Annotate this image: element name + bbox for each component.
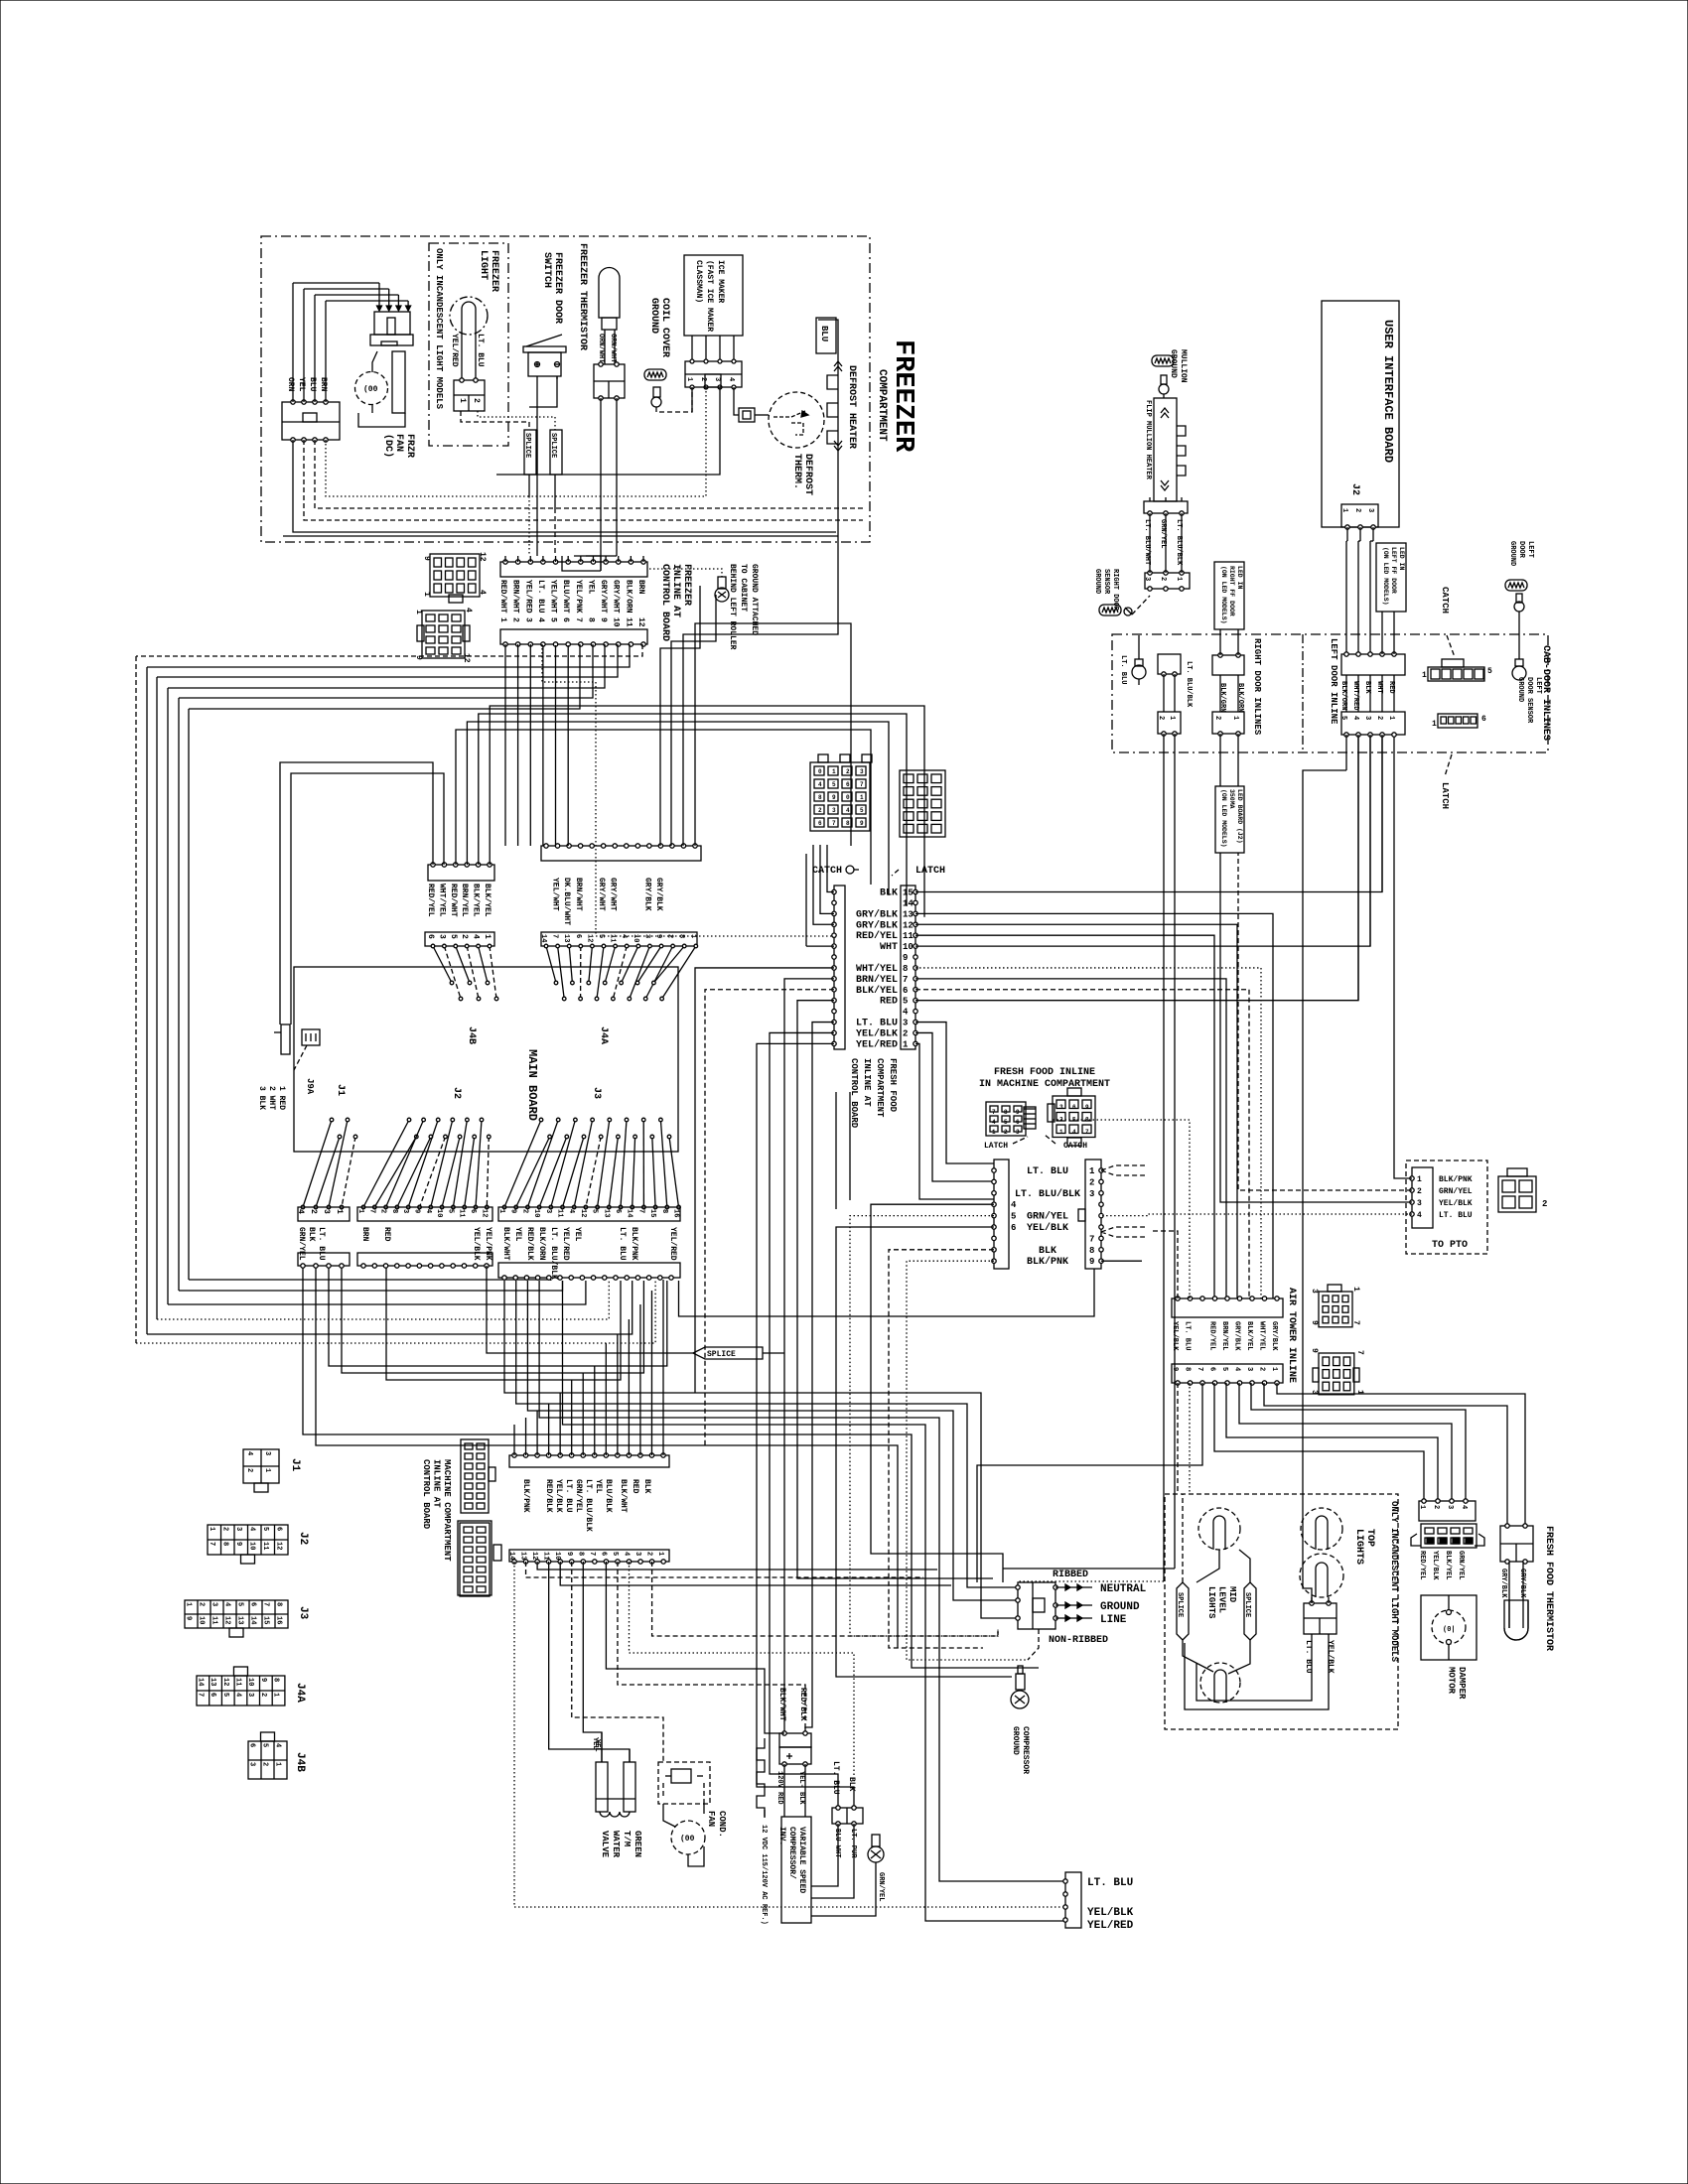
svg-text:5: 5 [611,1552,619,1556]
svg-text:10: 10 [247,1542,255,1550]
svg-text:GRY/BLK: GRY/BLK [1270,1321,1278,1351]
svg-text:4: 4 [620,934,628,938]
svg-text:LEFT: LEFT [1526,541,1534,558]
svg-text:LT. BLU: LT. BLU [1119,655,1127,684]
svg-text:(ON LED MODELS): (ON LED MODELS) [1382,547,1389,606]
svg-text:3: 3 [1417,1199,1422,1208]
svg-text:BLK/PNK: BLK/PNK [1439,1175,1473,1184]
svg-text:YEL/BLK: YEL/BLK [1431,1551,1439,1580]
svg-text:FRZR: FRZR [404,434,415,458]
svg-text:BLU/BLK: BLU/BLK [604,1479,613,1513]
svg-text:5: 5 [446,1209,454,1213]
svg-text:1: 1 [1422,671,1427,680]
svg-text:RIGHT FF DOOR: RIGHT FF DOOR [1228,566,1235,616]
svg-text:7: 7 [903,975,908,985]
svg-text:4: 4 [623,1552,631,1556]
svg-text:1: 1 [263,1468,271,1472]
svg-text:4: 4 [223,1602,231,1606]
svg-text:3: 3 [322,1209,331,1214]
svg-text:10: 10 [198,1616,206,1624]
svg-text:J9A: J9A [305,1078,315,1095]
svg-text:BEHIND LEFT ROLLER: BEHIND LEFT ROLLER [728,564,737,650]
svg-text:3: 3 [401,1209,409,1213]
svg-text:2: 2 [472,398,481,403]
svg-text:CATCH: CATCH [1063,1142,1087,1151]
svg-text:DEFROST HEATER: DEFROST HEATER [846,365,857,449]
svg-text:13: 13 [236,1616,244,1624]
svg-text:COMPARTMENT: COMPARTMENT [876,369,888,442]
svg-text:8: 8 [1089,1246,1094,1256]
svg-text:9: 9 [1085,1104,1089,1111]
svg-text:5: 5 [591,1209,599,1213]
svg-text:RED/YEL: RED/YEL [856,930,898,942]
svg-text:BLK/WHT: BLK/WHT [619,1479,628,1513]
svg-text:CLASSMAN): CLASSMAN) [694,260,703,303]
svg-text:GROUND: GROUND [1093,569,1101,594]
svg-text:LT. BLU/BLK: LT. BLU/BLK [584,1479,593,1532]
svg-text:LT. BLU: LT. BLU [1439,1211,1473,1220]
svg-text:BLK: BLK [642,1479,651,1494]
svg-text:DOOR SENSOR: DOOR SENSOR [1525,677,1533,724]
svg-text:USER INTERFACE BOARD: USER INTERFACE BOARD [1381,320,1395,463]
svg-text:GRN/YEL: GRN/YEL [877,1872,885,1901]
svg-text:12: 12 [480,1209,488,1217]
svg-text:BLK: BLK [307,1227,316,1242]
svg-text:14: 14 [626,1209,633,1217]
svg-text:SENSOR: SENSOR [1102,569,1110,595]
svg-text:8: 8 [390,1209,398,1213]
svg-text:11: 11 [903,931,914,941]
svg-text:FREEZER: FREEZER [489,250,499,292]
svg-text:1: 1 [903,1039,909,1049]
svg-text:FREEZER THERMISTOR: FREEZER THERMISTOR [577,243,588,350]
svg-text:3: 3 [860,768,864,775]
svg-text:CATCH: CATCH [1440,587,1450,614]
svg-text:12: 12 [903,920,914,930]
svg-text:10: 10 [532,1209,540,1217]
svg-text:2: 2 [511,617,520,622]
svg-text:FLIP MULLION HEATER: FLIP MULLION HEATER [1144,400,1152,480]
svg-text:2: 2 [379,1209,387,1213]
svg-text:BLK/GRN: BLK/GRN [1218,683,1226,712]
svg-text:GROUND: GROUND [1011,1726,1020,1755]
svg-text:10: 10 [632,934,639,942]
svg-text:7: 7 [636,1209,644,1213]
svg-text:4: 4 [478,590,487,595]
svg-text:RED: RED [382,1227,391,1242]
svg-text:MACHINE COMPARTMENT: MACHINE COMPARTMENT [442,1459,452,1562]
svg-text:RED/BLK: RED/BLK [544,1479,553,1513]
svg-text:0: 0 [846,794,850,801]
svg-text:YEL: YEL [513,1227,522,1242]
svg-text:4: 4 [567,1209,575,1213]
svg-text:8: 8 [275,1602,283,1606]
svg-text:7: 7 [1085,1129,1089,1136]
svg-text:2: 2 [699,377,707,381]
svg-text:DEFROST: DEFROST [802,454,813,495]
svg-text:8: 8 [818,794,822,801]
svg-text:TO CABINET: TO CABINET [739,564,748,612]
svg-text:12 VDC 115/120V AC REF.): 12 VDC 115/120V AC REF.) [760,1825,768,1925]
svg-text:GREEN: GREEN [633,1831,642,1857]
svg-text:4: 4 [472,934,481,939]
svg-text:LT. BLU/BLK: LT. BLU/BLK [1185,661,1193,708]
svg-text:GRY/BLK: GRY/BLK [856,908,898,920]
svg-text:INLINE AT: INLINE AT [670,564,681,617]
svg-text:RED/WHT: RED/WHT [498,580,507,614]
svg-text:1: 1 [685,377,693,381]
svg-text:FREEZER DOOR: FREEZER DOOR [552,252,563,324]
svg-text:LEFT: LEFT [1534,677,1542,694]
svg-text:LT. BLU: LT. BLU [856,1019,898,1029]
svg-text:11: 11 [233,1678,241,1686]
svg-text:2: 2 [645,1552,653,1556]
svg-text:5: 5 [549,617,558,622]
svg-text:14: 14 [196,1678,204,1686]
svg-text:WATER: WATER [611,1831,621,1858]
svg-text:2: 2 [1417,1187,1422,1196]
svg-text:4: 4 [1351,716,1359,720]
svg-text:1: 1 [1418,1505,1426,1509]
svg-text:GRN/YEL: GRN/YEL [1457,1551,1465,1579]
svg-text:GRY/WHT: GRY/WHT [597,878,606,911]
svg-text:1: 1 [498,617,507,622]
svg-text:6: 6 [1481,715,1486,724]
svg-text:2: 2 [666,934,674,938]
svg-text:1: 1 [272,1693,280,1697]
svg-text:CONTROL BOARD: CONTROL BOARD [421,1459,431,1530]
svg-text:2: 2 [1157,716,1165,720]
svg-text:BRN/YEL: BRN/YEL [1220,1321,1228,1350]
svg-text:4: 4 [1460,1505,1468,1509]
svg-text:(00: (00 [680,1835,695,1843]
svg-text:ONLY INCANDESCENT LIGHT MODELS: ONLY INCANDESCENT LIGHT MODELS [1389,1501,1399,1663]
svg-text:6: 6 [1011,1223,1016,1233]
svg-text:7: 7 [588,1552,596,1556]
svg-text:J1: J1 [289,1458,301,1472]
svg-text:2: 2 [818,807,822,814]
svg-text:LT. BLU: LT. BLU [1184,1321,1192,1350]
svg-text:GRN/YEL: GRN/YEL [1027,1211,1068,1223]
svg-text:MOTOR: MOTOR [1447,1667,1457,1695]
svg-text:7: 7 [367,1209,375,1213]
svg-text:3: 3 [523,617,532,622]
svg-text:3: 3 [234,1527,242,1531]
svg-text:1: 1 [185,1602,193,1606]
svg-text:VALVE: VALVE [600,1831,610,1858]
svg-text:7: 7 [208,1542,215,1546]
svg-text:1: 1 [356,1209,364,1213]
svg-text:9: 9 [903,953,908,963]
svg-text:6: 6 [599,1552,607,1556]
svg-text:YEL/BLK: YEL/BLK [1027,1222,1068,1234]
svg-text:4: 4 [296,1209,305,1214]
svg-text:11: 11 [211,1616,218,1624]
svg-text:14: 14 [249,1616,257,1624]
svg-text:3: 3 [246,1693,254,1697]
svg-text:ICE MAKER: ICE MAKER [716,260,725,303]
svg-text:ORN/WHT: ORN/WHT [597,334,605,362]
svg-text:J3: J3 [591,1087,602,1099]
svg-text:BLK/PNK: BLK/PNK [630,1227,638,1261]
svg-text:GRY/WHT: GRY/WHT [599,580,608,614]
svg-text:6: 6 [469,1209,477,1213]
svg-text:11: 11 [542,1552,550,1560]
svg-text:5: 5 [1339,716,1347,720]
svg-text:6: 6 [1016,1119,1020,1126]
svg-text:J4A: J4A [598,1026,609,1044]
svg-text:J2: J2 [451,1087,462,1099]
svg-text:COMPRESSOR/: COMPRESSOR/ [787,1827,796,1879]
svg-text:3: 3 [1310,1289,1319,1294]
svg-text:2: 2 [245,1468,253,1472]
svg-text:LT. BLU: LT. BLU [831,1761,840,1795]
svg-text:BLU: BLU [819,326,829,341]
svg-text:1: 1 [1417,1175,1422,1184]
svg-text:2: 2 [1004,1129,1008,1136]
svg-text:4: 4 [1417,1211,1422,1220]
svg-text:1: 1 [656,1552,664,1556]
svg-text:12: 12 [579,1209,587,1217]
svg-text:9: 9 [413,1209,421,1213]
svg-text:6: 6 [249,1602,257,1606]
svg-text:TO PTO: TO PTO [1432,1240,1468,1251]
svg-text:MAIN BOARD: MAIN BOARD [525,1049,539,1121]
svg-text:4: 4 [903,1008,909,1018]
svg-text:1: 1 [1168,716,1176,720]
svg-text:7: 7 [262,1602,270,1606]
svg-text:11: 11 [458,1209,466,1217]
svg-text:3: 3 [248,1762,256,1766]
svg-text:COIL COVER: COIL COVER [659,298,670,357]
svg-text:4: 4 [424,1209,432,1213]
svg-text:1: 1 [483,934,492,939]
svg-text:GRY/BLK: GRY/BLK [642,878,651,911]
svg-text:3: 3 [903,1019,908,1028]
svg-text:INLINE AT: INLINE AT [432,1459,442,1508]
svg-text:AIR TOWER INLINE: AIR TOWER INLINE [1286,1288,1297,1383]
svg-text:YEL/BLK: YEL/BLK [856,1027,898,1039]
svg-text:GROUND: GROUND [1100,1601,1140,1613]
svg-text:YEL: YEL [593,1739,601,1752]
svg-text:T/M: T/M [622,1831,632,1846]
svg-text:1: 1 [335,1209,344,1214]
svg-text:9: 9 [185,1616,193,1620]
svg-text:3: 3 [263,1451,271,1455]
svg-text:J1: J1 [335,1084,346,1096]
svg-text:9: 9 [832,794,836,801]
svg-text:BLK: BLK [880,888,898,899]
svg-text:8: 8 [586,617,595,622]
svg-text:THERM.: THERM. [791,454,802,489]
svg-text:2: 2 [309,1209,318,1214]
svg-text:INLINE AT: INLINE AT [862,1058,872,1107]
svg-text:2: 2 [1542,1199,1547,1209]
svg-text:3: 3 [713,377,721,381]
svg-text:J4B: J4B [294,1752,306,1772]
svg-text:J4B: J4B [466,1026,477,1044]
svg-text:2: 2 [1375,716,1383,720]
svg-text:3: 3 [1245,1367,1253,1371]
svg-text:(ON LED MODELS): (ON LED MODELS) [1220,789,1227,848]
svg-text:6: 6 [574,934,582,938]
svg-text:3: 3 [1089,1189,1094,1199]
svg-text:5: 5 [1487,667,1492,676]
svg-text:5: 5 [832,781,836,788]
svg-text:YEL/BLK: YEL/BLK [554,1479,563,1513]
svg-text:4: 4 [1011,1200,1017,1210]
svg-text:3: 3 [1366,508,1374,512]
svg-text:BRN: BRN [636,580,645,595]
svg-text:BLK/ORN: BLK/ORN [1236,683,1244,712]
svg-text:BLU/WHT: BLU/WHT [561,580,570,614]
svg-text:SPLICE: SPLICE [1176,1592,1184,1617]
svg-text:COMPARTMENT: COMPARTMENT [875,1058,885,1118]
svg-text:7: 7 [196,1693,204,1697]
svg-text:LINE: LINE [1100,1614,1127,1626]
svg-text:14: 14 [507,1552,515,1560]
svg-text:11: 11 [609,934,617,942]
svg-text:6: 6 [561,617,570,622]
svg-text:10: 10 [903,942,914,952]
svg-text:WHT/YEL: WHT/YEL [856,963,898,975]
svg-text:BRN: BRN [360,1227,369,1242]
svg-text:BLK/WHT: BLK/WHT [777,1688,786,1721]
svg-text:SPLICE: SPLICE [707,1350,736,1359]
svg-text:12: 12 [636,617,645,627]
svg-text:BLK/YEL: BLK/YEL [1245,1321,1253,1350]
svg-text:LT. BLU: LT. BLU [1087,1877,1133,1889]
svg-text:5: 5 [1011,1212,1016,1222]
svg-text:LATCH: LATCH [1440,782,1450,809]
svg-text:5: 5 [597,934,605,938]
svg-text:13: 13 [903,909,914,919]
svg-text:RED: RED [880,997,898,1008]
svg-text:BLK/YEL: BLK/YEL [856,985,898,997]
svg-text:9: 9 [509,1209,517,1213]
svg-text:FAN: FAN [706,1811,716,1827]
svg-text:9: 9 [259,1678,267,1682]
svg-text:YEL/WHT: YEL/WHT [549,580,558,614]
svg-text:7: 7 [992,1109,996,1116]
svg-text:DAMPER: DAMPER [1457,1667,1467,1700]
svg-text:2: 2 [198,1602,206,1606]
svg-text:YEL/PNK: YEL/PNK [484,1227,492,1261]
svg-text:7: 7 [551,934,559,938]
svg-text:2: 2 [846,768,850,775]
svg-text:RED/YEL: RED/YEL [1208,1321,1216,1350]
svg-text:8: 8 [220,1542,228,1546]
svg-text:LT. PUR: LT. PUR [849,1829,857,1858]
svg-text:2 WHT: 2 WHT [267,1086,276,1110]
svg-text:2: 2 [1432,1505,1440,1509]
svg-text:10: 10 [612,617,621,627]
svg-text:SPLICE: SPLICE [1243,1592,1251,1617]
svg-text:LT. BLU: LT. BLU [618,1227,627,1261]
svg-text:LED BOARD (J2): LED BOARD (J2) [1236,789,1243,844]
svg-text:3: 3 [1016,1129,1020,1136]
svg-text:12: 12 [223,1616,231,1624]
svg-text:12: 12 [221,1678,229,1686]
svg-text:2: 2 [903,1028,908,1038]
svg-text:BLK/YEL: BLK/YEL [483,884,492,917]
svg-text:9: 9 [654,934,662,938]
svg-text:2: 2 [520,1209,528,1213]
svg-text:5: 5 [860,807,864,814]
svg-text:2: 2 [1213,716,1221,720]
svg-text:0: 0 [818,768,822,775]
svg-text:GROUND ATTACHED: GROUND ATTACHED [750,564,759,635]
svg-text:LATCH: LATCH [984,1142,1008,1151]
svg-text:1: 1 [422,592,431,597]
svg-text:9: 9 [1016,1109,1020,1116]
svg-text:3: 3 [642,934,650,938]
svg-text:1: 1 [832,768,836,775]
svg-text:1: 1 [208,1527,215,1531]
svg-text:6: 6 [426,934,435,939]
svg-text:SPLICE: SPLICE [523,433,531,458]
svg-text:YEL/RED: YEL/RED [856,1038,898,1050]
svg-text:2: 2 [460,934,469,939]
svg-text:GRY/BLK: GRY/BLK [1518,1569,1526,1598]
svg-text:NEUTRAL: NEUTRAL [1100,1583,1147,1595]
svg-text:BLK/PNK: BLK/PNK [1027,1256,1068,1268]
svg-text:15: 15 [262,1616,270,1624]
svg-text:BLK: BLK [847,1777,856,1792]
svg-text:RIBBED: RIBBED [1053,1570,1088,1580]
svg-text:YEL/PNK: YEL/PNK [574,580,583,614]
svg-text:J4A: J4A [294,1683,306,1703]
svg-text:1: 1 [1089,1166,1095,1176]
svg-text:6: 6 [209,1693,216,1697]
svg-text:CATCH: CATCH [812,866,842,877]
svg-text:3: 3 [1143,577,1151,581]
svg-text:4: 4 [536,617,545,622]
svg-text:11: 11 [261,1542,269,1550]
svg-text:8: 8 [677,934,685,938]
svg-text:6: 6 [1208,1367,1216,1371]
svg-text:6: 6 [248,1743,256,1747]
svg-text:1: 1 [414,610,423,614]
svg-text:4: 4 [247,1527,255,1531]
svg-text:6: 6 [274,1527,282,1531]
svg-text:11: 11 [624,617,633,627]
svg-text:3: 3 [211,1602,218,1606]
svg-text:YEL/RED: YEL/RED [668,1227,677,1261]
svg-text:9: 9 [422,556,431,561]
svg-text:14: 14 [539,934,547,942]
svg-text:2: 2 [1258,1367,1266,1371]
svg-text:14: 14 [903,898,914,908]
svg-text:YEL/RED: YEL/RED [561,1227,570,1261]
svg-text:7: 7 [1089,1234,1094,1244]
svg-text:1: 1 [458,398,467,403]
svg-text:4: 4 [727,377,735,381]
svg-text:4: 4 [1072,1129,1076,1136]
svg-text:RED/BLK: RED/BLK [798,1688,807,1721]
svg-text:1: 1 [1387,716,1395,720]
svg-text:LT. BLU/BLK: LT. BLU/BLK [549,1227,558,1280]
svg-text:BLK/YEL: BLK/YEL [472,884,481,917]
svg-text:8: 8 [1184,1367,1192,1371]
svg-text:12: 12 [478,552,487,562]
svg-text:CONTROL BOARD: CONTROL BOARD [659,564,670,641]
svg-text:GROUND: GROUND [1169,349,1178,378]
svg-text:13: 13 [519,1552,527,1560]
svg-text:MULLION: MULLION [1179,349,1188,383]
svg-text:1: 1 [992,1129,996,1136]
svg-text:1: 1 [689,934,697,938]
